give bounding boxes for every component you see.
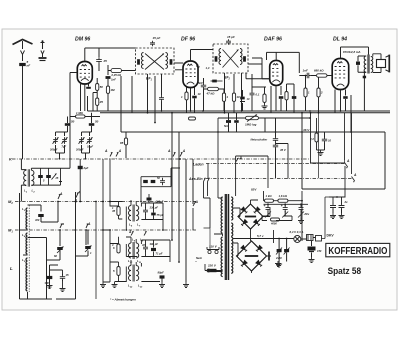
wire L2 right [59, 168, 62, 185]
label output current [343, 50, 361, 54]
capacitor bridge2 out [266, 252, 269, 261]
switch rail M2 [8, 199, 196, 205]
wire inner loop left [28, 238, 47, 300]
resistor 10k det [232, 74, 240, 113]
wire antenna down [22, 66, 24, 159]
wire bridge1 leads [233, 200, 270, 241]
lamp 6.3V 0.3A [294, 236, 301, 243]
wire mains column [204, 118, 219, 196]
svg-text:300: 300 [35, 218, 40, 222]
wire battery rail [311, 113, 346, 163]
svg-text:15 pF: 15 pF [153, 36, 161, 40]
svg-text:200pF: 200pF [75, 148, 84, 152]
label Bf1 [146, 77, 153, 82]
label tube V2 DF 96 [181, 37, 195, 43]
svg-text:1M: 1M [110, 88, 115, 92]
title box KOFFERRADIO [326, 243, 390, 257]
tube V2 DF96 [183, 61, 198, 88]
svg-text:1MΩ log: 1MΩ log [245, 123, 257, 127]
wire coupling [299, 75, 316, 77]
svg-text:A: A [104, 149, 108, 153]
capacitor 10nF mid [317, 132, 332, 150]
svg-text:10pF: 10pF [87, 145, 93, 149]
svg-text:KOFFERRADIO: KOFFERRADIO [328, 246, 387, 257]
switch rail Laden [193, 163, 345, 167]
capacitor elko pair right [329, 196, 348, 218]
svg-text:50: 50 [100, 85, 104, 89]
capacitor 300p ferrite [35, 214, 58, 222]
wire resistor row [264, 191, 309, 232]
oscillator coil L6 L7 [129, 205, 141, 228]
capacitor 100uF [147, 194, 164, 204]
ground bank 4 [183, 282, 189, 288]
capacitor elko 1 [264, 204, 272, 218]
svg-text:87/41/2,8 mA: 87/41/2,8 mA [343, 50, 361, 54]
capacitor elko 2 [281, 204, 289, 218]
svg-text:+: + [264, 204, 266, 208]
capacitor 390p bottom [45, 270, 53, 288]
label DKV [327, 233, 335, 237]
capacitor 2uF left [78, 159, 89, 202]
trimmer 60pF m1 b [76, 201, 97, 299]
oscillator coil L8 L9 [128, 242, 142, 264]
label 82V top [0, 0, 1, 1]
wire BF2 to V3 grid [246, 64, 270, 79]
svg-text:Spatz 58: Spatz 58 [328, 266, 362, 276]
resistor V2 cathode [181, 92, 188, 100]
svg-text:A: A [239, 156, 243, 160]
svg-text:A: A [167, 149, 171, 153]
ground bank 2 [112, 282, 118, 288]
trimmer L2 [52, 174, 59, 181]
wire bridge2 leads [233, 243, 271, 273]
svg-text:15: 15 [66, 273, 69, 277]
svg-text:46 V: 46 V [302, 128, 310, 132]
ground mid cluster [318, 150, 324, 156]
trimmer 200pF b [75, 137, 85, 151]
wire 5.7V row [233, 234, 294, 239]
wire agc left [70, 116, 100, 118]
capacitor 15n bottom [47, 265, 69, 292]
potentiometer 1M log [241, 115, 265, 133]
capacitor 50 right [89, 113, 99, 132]
wire coil taps [20, 205, 53, 299]
ground elko right 1 [330, 213, 336, 219]
tube V4 DL94 [332, 59, 349, 90]
svg-text:L: L [10, 266, 13, 271]
output transformer T-out [356, 55, 373, 112]
resistor 2.2k [309, 118, 318, 150]
switch contacts K rail right [167, 149, 186, 157]
resistor 5k osc c [113, 267, 120, 276]
svg-text:Laden: Laden [193, 163, 204, 167]
wire M2 contacts [57, 191, 81, 223]
wire 47k [204, 78, 225, 89]
svg-text:A: A [87, 222, 91, 226]
svg-text:2µF: 2µF [83, 166, 89, 170]
wire cap25 down [98, 64, 100, 72]
label 82V [251, 188, 257, 192]
wires coil bank b [102, 229, 170, 256]
ground elko right 2 [339, 213, 345, 219]
oscillator coil L10 L11 [128, 265, 143, 289]
svg-text:~: ~ [195, 260, 197, 264]
ground bank 3 [159, 282, 165, 288]
trimmer 7pF [62, 137, 68, 148]
capacitor 15pF above BF2 [226, 35, 235, 45]
svg-text:150: 150 [317, 249, 322, 253]
wire BF2 bottom pins [225, 73, 243, 113]
plug 220V [205, 264, 223, 273]
wire V4 pins down [335, 90, 346, 113]
wire to M1 rail [125, 219, 164, 231]
wire L1 L2 leads [21, 159, 60, 202]
bridge rectifier Gr2 [237, 241, 267, 271]
svg-text:* = Abweichungen: * = Abweichungen [110, 297, 136, 301]
svg-text:390: 390 [45, 281, 50, 285]
antenna A1 [13, 40, 33, 62]
capacitor 90pF [158, 271, 165, 283]
ground TA 1 [276, 262, 282, 268]
wire BF1 bottom pins [148, 74, 165, 113]
title Spatz 58 [328, 266, 362, 276]
switch contact laden [345, 159, 351, 169]
svg-text:50: 50 [71, 120, 75, 124]
wire BF1 to V2 [174, 63, 183, 70]
resistor 25k at V1 [96, 98, 104, 106]
svg-text:47 kΩ: 47 kΩ [206, 92, 216, 96]
resistor 4000 [270, 218, 280, 226]
resistor 1M osc [106, 86, 115, 111]
wires coil bank a [102, 200, 163, 282]
capacitor 40pF b [141, 243, 148, 252]
svg-text:220 V: 220 V [207, 264, 217, 268]
capacitor 1nF V1 grid [106, 76, 117, 81]
wire left spine x75 [56, 192, 76, 299]
label tube V3 DAF 96 [264, 37, 282, 43]
resistor 1k [265, 194, 274, 202]
svg-text:15 pF: 15 pF [227, 35, 235, 39]
wire V2 pins [187, 88, 195, 113]
svg-text:A: A [346, 159, 350, 163]
svg-text:25: 25 [103, 59, 108, 63]
IF transformer BF2 dashed box [213, 44, 248, 73]
wire TA feed [273, 230, 275, 243]
svg-text:a: a [62, 222, 64, 226]
svg-text:1,6 kΩ: 1,6 kΩ [279, 194, 288, 198]
switch contact ein [352, 173, 358, 183]
wire right loop [301, 95, 385, 241]
wire V3 pins [271, 86, 281, 113]
svg-text:Aus-Ein: Aus-Ein [188, 177, 203, 181]
resistor 47k agc [206, 87, 219, 95]
capacitor elko 3 [298, 204, 310, 223]
svg-text:5,7 v: 5,7 v [257, 234, 264, 238]
svg-text:1nF: 1nF [303, 69, 309, 73]
wire V4 top to output transformer [341, 47, 369, 59]
bridge rectifier Gr1 [238, 204, 263, 229]
svg-text:+50v: +50v [304, 213, 310, 216]
wire V3 anode top to DL94 coupling [252, 52, 299, 78]
capacitor 15pF above BF1 [150, 36, 161, 46]
svg-text:2,2: 2,2 [309, 137, 314, 141]
wires coil bank c [103, 260, 160, 282]
resistor V3 screen [285, 84, 288, 111]
svg-text:A: A [59, 192, 63, 196]
capacitor box B lower [211, 80, 223, 83]
wire ein rail [318, 113, 320, 178]
speaker LS [373, 54, 390, 73]
resistor 2M V4 [317, 77, 323, 114]
wire x344 rail [345, 113, 352, 174]
svg-text:680 kΩ: 680 kΩ [314, 69, 324, 73]
wire bus 132 [121, 131, 385, 133]
svg-text:45 V: 45 V [279, 148, 287, 152]
svg-text:nF: nF [27, 64, 31, 68]
capacitor 5nF agc [198, 81, 206, 111]
svg-text:A: A [353, 173, 357, 177]
wire V1 left grid [70, 73, 77, 160]
power transformer Tr [221, 194, 233, 280]
wire 92V feed [236, 156, 268, 196]
trimmer 200pF a [49, 137, 59, 151]
wire V1 pins down [81, 78, 98, 111]
svg-text:4000: 4000 [270, 222, 277, 226]
trimmer 10pF [87, 137, 94, 148]
wire 680k to V4 [327, 75, 332, 77]
label lamp [290, 230, 304, 234]
connector DKV b [313, 236, 322, 242]
wire BF2 top link [191, 50, 214, 62]
resistor det 3 [252, 87, 268, 109]
svg-text:A: A [77, 191, 81, 195]
svg-text:1 MΩ: 1 MΩ [76, 111, 84, 115]
wire left spine x70 lower [61, 159, 71, 168]
svg-text:A: A [195, 200, 199, 204]
capacitor TA pair [275, 239, 290, 262]
svg-text:1,4: 1,4 [206, 66, 210, 70]
svg-text:Netzschalter: Netzschalter [251, 138, 269, 142]
svg-text:0,25 kΩ: 0,25 kΩ [112, 73, 122, 77]
svg-text:A: A [118, 149, 122, 153]
choke 0.25 left [111, 68, 122, 76]
resistor 85 mid [120, 132, 128, 158]
tube V3 DAF96 [270, 60, 283, 85]
wire transformer left leads [204, 196, 223, 272]
svg-text:DM 96: DM 96 [75, 37, 90, 43]
wire v1 misc [107, 79, 109, 86]
svg-text:85: 85 [120, 141, 124, 145]
label Netz [195, 256, 203, 264]
wire DKV riser [322, 197, 330, 239]
wire bus agc 118 [218, 117, 311, 119]
resistor 1M det [222, 89, 228, 111]
wire V1 anode to BF1 [85, 48, 136, 62]
wire elko feed [344, 166, 346, 197]
capacitor cluster 50 mid [140, 158, 181, 202]
wire mid column [121, 76, 196, 132]
svg-text:1nF: 1nF [111, 78, 116, 82]
svg-text:0,1: 0,1 [256, 93, 260, 97]
wire bus filament 112.8 [100, 112, 390, 114]
resistor 35k osc a [112, 206, 120, 216]
label 46V [302, 128, 310, 132]
svg-text:90pF: 90pF [158, 271, 165, 275]
svg-text:6,3 V 0,3 A: 6,3 V 0,3 A [290, 230, 304, 234]
capacitor af2 [234, 113, 239, 132]
switch rail Aus-Ein [188, 177, 352, 181]
svg-text:10: 10 [236, 95, 240, 99]
ground TA 2 [275, 261, 281, 267]
capacitor 390pF b [150, 242, 163, 256]
antenna A2 earth [39, 40, 47, 60]
connector DKV a [307, 235, 314, 241]
switch contact top right [193, 200, 199, 206]
resistor 1M agc [76, 111, 86, 118]
resistor 1.6k [278, 194, 288, 202]
svg-text:+: + [281, 204, 283, 208]
label L band [10, 266, 13, 271]
svg-text:50: 50 [95, 120, 99, 124]
capacitor 1nF coupling [303, 69, 311, 79]
svg-text:5nF: 5nF [198, 81, 203, 85]
resistor 1M V4 grid [304, 75, 310, 111]
trimmer 60pF m1 [47, 247, 64, 261]
capacitor 50 left [65, 117, 75, 133]
svg-text:DL 94: DL 94 [333, 37, 347, 43]
svg-text:25: 25 [55, 177, 59, 180]
tube V1 DM96 [77, 62, 92, 85]
capacitor L2 a [38, 168, 43, 185]
svg-text:10: 10 [198, 92, 202, 96]
wire 4000 row [262, 216, 292, 221]
wire rails x103 x110 upper [102, 159, 111, 202]
svg-text:2x: 2x [344, 200, 349, 204]
wire contact down [192, 208, 194, 230]
switch contacts row m1 [128, 230, 147, 242]
label tube V4 DL 94 [333, 37, 347, 43]
capacitor 45V netzschalter [251, 118, 289, 179]
svg-text:A: A [182, 149, 186, 153]
battery 1.5V [308, 241, 322, 263]
switch rail K [9, 157, 310, 162]
ground bank 1 [100, 282, 106, 288]
svg-text:DKV: DKV [327, 233, 335, 237]
note abweichungen [110, 297, 136, 301]
capacitor 25pF at V1 anode [96, 57, 107, 64]
svg-text:A: A [128, 230, 132, 234]
capacitor L2 b [43, 168, 51, 185]
svg-text:1 kΩ: 1 kΩ [266, 194, 273, 198]
capacitor V3 screen [287, 84, 297, 113]
svg-text:2: 2 [320, 91, 323, 95]
IF transformer BF1 dashed box [136, 48, 175, 74]
svg-text:200pF: 200pF [49, 148, 58, 152]
capacitor antenna 5nF [19, 60, 30, 68]
wire choke to BF1 [108, 65, 136, 75]
wire right rails [171, 112, 193, 282]
wire M1 contacts [59, 222, 91, 246]
svg-text:Netz: Netz [196, 256, 203, 260]
resistor 680k grid [314, 69, 327, 78]
plug 110V [204, 228, 220, 254]
svg-text:71 pF: 71 pF [156, 252, 163, 256]
svg-text:10: 10 [328, 139, 332, 143]
capacitor 5nF af [224, 113, 231, 132]
switch rail M1 [8, 228, 196, 234]
capacitor V4 cath [343, 96, 348, 111]
svg-text:60: 60 [54, 254, 57, 258]
wire trimmer bank [56, 132, 92, 160]
wire osc column [154, 76, 156, 123]
svg-text:DF 96: DF 96 [181, 37, 195, 43]
switch contacts K rail left [104, 149, 122, 159]
wire bus anode 111 [88, 96, 391, 112]
wire lamp right [301, 238, 307, 240]
wire bank b down [110, 244, 170, 262]
capacitor 330pF [143, 206, 158, 215]
capacitor 75pF [151, 213, 164, 217]
ferrite antenna coil L1-L5 [20, 193, 30, 299]
capacitor det 2 [250, 74, 260, 111]
label Bf2 [224, 76, 231, 81]
input transformer L1 L2 [24, 169, 36, 193]
svg-text:25: 25 [99, 100, 104, 104]
capacitor V3 [279, 96, 284, 111]
resistor 50k at V1 [96, 84, 104, 91]
capacitor 10nF det [240, 90, 250, 111]
label U2 bias [196, 64, 210, 70]
capacitor V2 bypass [192, 92, 201, 98]
svg-text:DAF 96: DAF 96 [264, 37, 282, 43]
resistor 6.8k osc b [111, 243, 120, 253]
label tube V1 DM 96 [75, 37, 90, 43]
